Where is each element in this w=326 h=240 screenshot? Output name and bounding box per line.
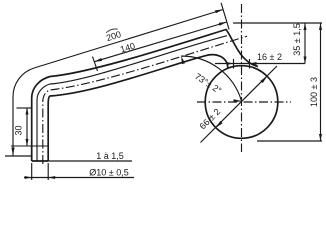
arrow 100 top xyxy=(319,23,322,30)
arrow 100 bottom xyxy=(319,134,322,141)
dimension arc 73deg xyxy=(181,56,241,101)
label 140 xyxy=(119,41,136,55)
label 200 xyxy=(104,27,122,43)
arrow 16 right xyxy=(250,62,257,65)
tube axis xyxy=(43,36,247,164)
arrow 66 upper xyxy=(260,76,267,83)
ball vertical centerline xyxy=(241,4,243,152)
crimp line xyxy=(11,145,48,147)
tube inner wall left xyxy=(37,36,227,161)
ball xyxy=(205,66,278,139)
dimension line 30 xyxy=(26,108,28,147)
label 30 xyxy=(14,125,24,135)
extension line 140 left xyxy=(93,57,98,72)
arrow 35 top xyxy=(304,23,307,30)
arrow 140 right xyxy=(219,22,227,26)
tube outer edge xyxy=(32,30,258,162)
dimension line 100 xyxy=(320,23,322,141)
svg-text:1 à 1,5: 1 à 1,5 xyxy=(96,151,124,161)
svg-text:Ø10 ± 0,5: Ø10 ± 0,5 xyxy=(89,167,128,177)
label 35 xyxy=(292,23,302,55)
arrow 140 left xyxy=(94,58,102,62)
svg-text:35 ± 1,5: 35 ± 1,5 xyxy=(292,23,302,55)
dimension line 16 xyxy=(215,63,305,65)
svg-text:16 ± 2: 16 ± 2 xyxy=(257,52,282,62)
dimension line dia10 xyxy=(24,177,134,179)
arrow 73 lower xyxy=(234,99,242,102)
tube inner edge xyxy=(48,55,228,161)
arrow 200 top xyxy=(215,10,223,14)
arrow 30 top xyxy=(26,108,29,115)
extension line 100 bottom xyxy=(257,140,322,142)
extension line top xyxy=(233,22,322,24)
arrow dia10 right xyxy=(48,176,55,179)
extension tick 16 right xyxy=(249,59,251,69)
arrow 16 left xyxy=(227,62,234,65)
extension line 30 top xyxy=(17,107,33,109)
arrow 73 upper xyxy=(181,56,185,64)
extension line top right xyxy=(221,3,229,30)
arrow 66 lower xyxy=(216,121,223,128)
arrow 200 bottom xyxy=(11,148,14,156)
leader 1 a 1.5 xyxy=(48,160,132,162)
dimension line 66 xyxy=(201,66,278,143)
arrow dia10 left xyxy=(25,176,32,179)
dimension line 35 xyxy=(304,23,306,64)
arrow 30 bottom xyxy=(26,139,29,146)
extension tick 16 left xyxy=(233,59,235,69)
label 66 xyxy=(198,107,223,132)
extension line dia10 right xyxy=(47,163,49,180)
dimension line 140 xyxy=(94,22,227,62)
extension line bottom left xyxy=(5,155,32,157)
label 73deg xyxy=(193,71,224,96)
extension line dia10 left xyxy=(31,163,33,180)
ball horizontal centerline xyxy=(197,101,291,103)
tube end face xyxy=(32,160,49,162)
svg-text:100 ± 3: 100 ± 3 xyxy=(309,77,319,107)
label 100 xyxy=(309,77,319,107)
dimension line 200 xyxy=(13,10,223,156)
svg-text:30: 30 xyxy=(14,125,24,135)
arrow 35 bottom xyxy=(304,57,307,64)
